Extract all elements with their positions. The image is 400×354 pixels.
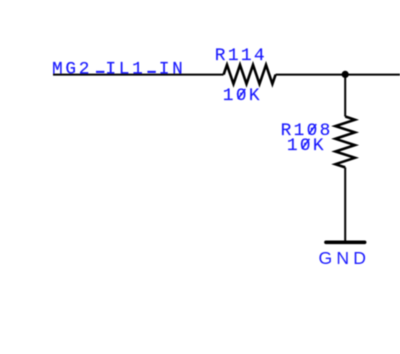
wire net MG2_IL1_IN horizontal left segment [53, 74, 224, 76]
resistor R108 body [335, 117, 355, 168]
wire vertical from R108 to ground [344, 167, 346, 241]
resistor R114 body [224, 65, 276, 84]
ground bar [326, 240, 365, 244]
slash of zero in 10K (R114) [238, 89, 245, 99]
net label underscore 2 [147, 71, 155, 73]
junction node [342, 71, 349, 78]
svg-text:R114: R114 [215, 46, 267, 66]
net label underscore 1 [96, 71, 104, 73]
svg-text:GND: GND [319, 248, 371, 268]
svg-text:10K: 10K [287, 136, 326, 156]
slash of zero in R108 [309, 124, 316, 134]
wire vertical from junction to R108 [344, 74, 346, 116]
svg-text:10K: 10K [223, 86, 262, 106]
wire horizontal right segment [276, 74, 400, 76]
slash of zero in 10K (R108) [302, 139, 309, 149]
svg-text:MG2 IL1 IN: MG2 IL1 IN [52, 59, 186, 79]
